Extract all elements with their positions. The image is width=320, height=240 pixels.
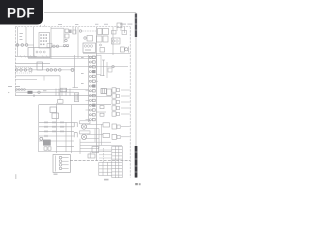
sensor B2 [100, 113, 104, 116]
bus line B3 [15, 66, 128, 68]
bus line B4 [28, 55, 96, 57]
relay K2 [74, 93, 78, 102]
ground strap GB1 [92, 147, 99, 153]
dashed enclosure [16, 68, 31, 73]
right column loads [112, 88, 130, 116]
fuse F4 [112, 31, 117, 35]
junction box JB3 [60, 88, 66, 91]
wire V2 [25, 27, 27, 44]
frame bottom [15, 79, 37, 81]
fuse row F1-F3 [15, 44, 34, 47]
wire W22 [87, 134, 103, 136]
fuse F6 [44, 147, 47, 150]
relay R5 [112, 134, 130, 139]
bus line B11 [80, 148, 99, 150]
relay R4 [112, 124, 130, 129]
module M1 [107, 89, 111, 96]
connector block C [58, 100, 64, 104]
wire V20 [38, 105, 40, 152]
junction JB2 [88, 154, 95, 158]
junction box JB1 [37, 62, 43, 70]
wire W8 [63, 28, 65, 43]
wire W13 [96, 96, 111, 98]
sensor B3 [108, 68, 112, 72]
wire V11 [116, 27, 118, 31]
wire W4 [15, 75, 60, 77]
page label [15, 174, 16, 179]
ladder stubs [86, 67, 99, 120]
control unit U2 [52, 113, 59, 119]
motor M4 [81, 134, 86, 139]
spine title top [135, 14, 138, 38]
wiring ladder CN2 [88, 55, 90, 122]
main vertical bus 2 [95, 27, 97, 161]
wire V22 [71, 105, 73, 153]
horn H1 [121, 47, 129, 53]
svg-text:PDF: PDF [7, 5, 35, 20]
wire V29 [89, 152, 91, 158]
schematic top border (dashed) [15, 26, 130, 28]
terminal row TB2 [15, 89, 88, 91]
wire W21 [87, 128, 99, 130]
connector CN1 [39, 33, 50, 49]
wire V26 [101, 124, 103, 145]
gauge cluster G1 [112, 38, 121, 44]
PDF badge [0, 0, 43, 25]
header note [58, 24, 132, 25]
node N3 [38, 91, 40, 93]
wire W20 [87, 123, 103, 125]
bus line B8 [39, 151, 111, 153]
label marks [8, 86, 20, 87]
wire W5 [59, 76, 61, 100]
connector CN3 [28, 91, 33, 94]
schematic left border [14, 27, 16, 96]
value labels [20, 33, 23, 40]
sensor B1 [100, 106, 104, 109]
wire V25 [98, 129, 100, 149]
distribution box PB1 [83, 43, 96, 53]
fuse F9 [69, 30, 72, 34]
wire W7 [51, 27, 64, 29]
ladder rungs [89, 56, 95, 121]
wire W6 [50, 27, 52, 59]
connector CN4 (dark) [43, 140, 50, 146]
wire V28 [103, 148, 105, 162]
bus line B5 [15, 91, 74, 93]
text specks [81, 57, 84, 84]
bus line B2 [15, 62, 50, 64]
control unit U1 [50, 107, 57, 113]
bus line B7 [39, 104, 111, 106]
battery terminal A [117, 23, 122, 31]
relay contacts [36, 51, 45, 53]
chain line (harness) [70, 160, 130, 162]
main vertical bus [77, 27, 79, 58]
relay terminal T1 [74, 123, 77, 128]
fuse pair FL1 [98, 29, 109, 35]
bus line B6 [15, 95, 96, 97]
tick pins [56, 89, 70, 96]
wire W16 [73, 87, 79, 89]
lamp L1 [65, 39, 67, 41]
capacitor C1 [100, 60, 105, 76]
pin table PT1 [112, 146, 123, 177]
wire W14 [96, 111, 106, 113]
shield conduit [97, 55, 102, 74]
resistor R1 [84, 36, 93, 42]
node bus [15, 55, 37, 57]
mini fuse box [47, 44, 52, 48]
pin table PT2 [99, 162, 112, 175]
wire V24 [94, 129, 96, 143]
bus line B1 [28, 58, 96, 60]
motor M3 [81, 124, 86, 129]
dot mark [8, 92, 9, 93]
resistor R2 [103, 123, 110, 127]
motor M2 [40, 137, 43, 140]
diode D1 [100, 44, 105, 52]
stub wire [43, 76, 45, 81]
pin label 2 [33, 95, 35, 97]
wire bus V1 [16, 27, 18, 56]
wire W9 [83, 53, 130, 55]
fuse pair FL2 [97, 36, 109, 42]
breaker CB1 [65, 34, 69, 38]
switch assembly SW1 [53, 155, 70, 173]
tick pins top [41, 25, 45, 27]
wire V21 [56, 103, 58, 153]
note mark [104, 179, 109, 181]
wire W12 [106, 62, 108, 78]
wire V3 [33, 27, 35, 56]
inline connectors [45, 121, 63, 137]
harness rows [99, 150, 112, 158]
relay box K1 [28, 48, 50, 58]
wire V23 [65, 122, 67, 152]
wire V15 [74, 55, 76, 88]
switch S1 row [51, 44, 69, 47]
schematic right border [129, 27, 131, 178]
fuse F7 [48, 147, 51, 150]
label box LB1 [80, 121, 91, 124]
fuse F5 [122, 31, 127, 35]
stub wires [73, 27, 76, 34]
page right edge [135, 13, 137, 178]
wire W23 [87, 138, 99, 140]
hatch box HB1 [101, 89, 107, 94]
relay terminal T2 [74, 133, 77, 138]
label box LB2 [80, 131, 91, 134]
wire label [43, 89, 46, 92]
page top edge [44, 12, 136, 14]
wire V10 [112, 27, 114, 55]
wire V12 [124, 27, 126, 33]
bus line B10 [80, 144, 122, 146]
terminal row TB1 [15, 69, 74, 72]
resistor R3 [103, 133, 110, 137]
wire V27 [79, 139, 81, 154]
page number [135, 183, 140, 185]
node N2 [71, 68, 74, 71]
spine title bottom: SECTION 7 ELECTRICAL SYSTEM [135, 146, 138, 178]
bus hatch ticks [20, 55, 47, 57]
node N1 [112, 65, 114, 67]
ignition switch S2 [79, 30, 97, 32]
label text [54, 174, 58, 175]
fuse F8 [65, 29, 69, 33]
bus line B9 [80, 141, 111, 143]
lower grid bus rows [39, 122, 74, 146]
